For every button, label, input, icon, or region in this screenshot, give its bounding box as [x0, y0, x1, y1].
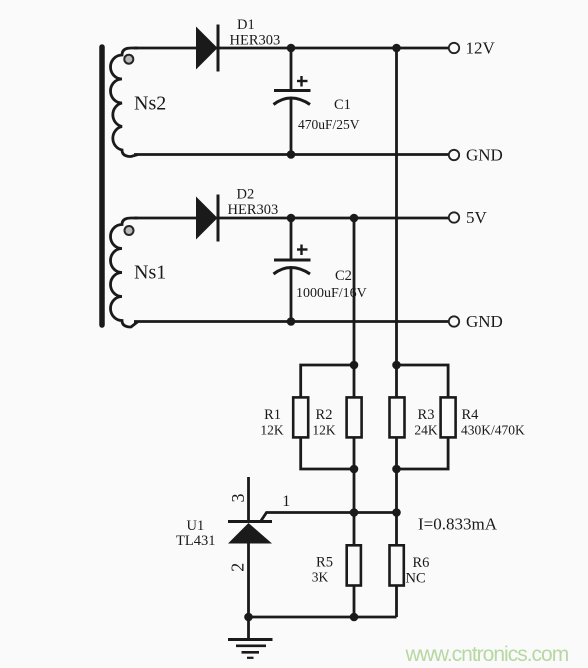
svg-text:R4: R4 [462, 407, 480, 423]
svg-text:2: 2 [228, 563, 248, 572]
svg-text:HER303: HER303 [228, 202, 279, 218]
svg-text:3: 3 [228, 494, 248, 503]
svg-text:R1: R1 [264, 407, 281, 423]
svg-text:5V: 5V [466, 208, 488, 227]
svg-text:1: 1 [282, 493, 290, 510]
svg-text:TL431: TL431 [176, 533, 215, 549]
svg-text:430K/470K: 430K/470K [461, 422, 525, 437]
svg-text:NC: NC [406, 571, 426, 587]
svg-text:HER303: HER303 [230, 33, 281, 49]
svg-text:12K: 12K [312, 422, 336, 437]
svg-text:R3: R3 [418, 407, 435, 423]
svg-text:U1: U1 [187, 518, 205, 534]
svg-text:R6: R6 [413, 555, 430, 571]
svg-text:I=0.833mA: I=0.833mA [418, 515, 498, 534]
svg-text:D2: D2 [237, 187, 255, 203]
svg-text:470uF/25V: 470uF/25V [298, 117, 360, 132]
svg-text:C2: C2 [335, 268, 352, 284]
svg-text:D1: D1 [237, 17, 255, 33]
svg-text:GND: GND [466, 146, 503, 165]
svg-text:1000uF/16V: 1000uF/16V [296, 286, 367, 301]
svg-text:R2: R2 [316, 407, 333, 423]
svg-text:Ns2: Ns2 [134, 93, 166, 115]
svg-text:GND: GND [466, 312, 503, 331]
svg-text:www.cntronics.com: www.cntronics.com [405, 643, 569, 666]
svg-text:R5: R5 [316, 555, 333, 571]
svg-text:12V: 12V [466, 39, 496, 58]
svg-text:Ns1: Ns1 [134, 262, 166, 284]
svg-text:C1: C1 [334, 97, 351, 113]
svg-text:12K: 12K [260, 422, 284, 437]
svg-text:3K: 3K [312, 570, 329, 585]
svg-text:24K: 24K [414, 422, 438, 437]
